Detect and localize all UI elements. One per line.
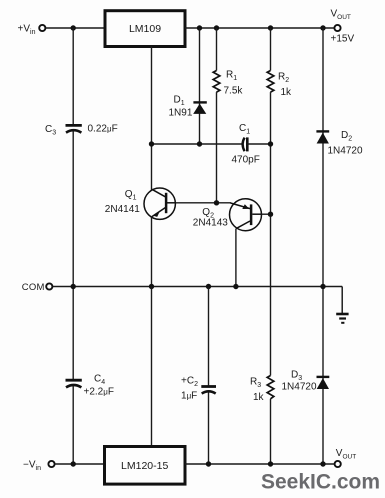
svg-text:1μF: 1μF [181,390,197,401]
junction C1 wire at R2 rail [268,141,273,146]
junction COM at Q1 emitter rail [149,284,154,289]
wire LM109 bottom to Q1 collector [151,47,153,191]
wire C2 rail bottom [208,392,210,464]
wire Q1 emitter down [151,218,153,287]
wire D2 D3 rail [322,28,324,464]
diode D2 [316,130,329,143]
ground [336,287,348,323]
wire left rail (upper segment) [72,28,74,125]
capacitor C1 [243,137,248,151]
svg-text:0.22μF: 0.22μF [88,124,118,135]
wire R1 rail bottom [216,92,218,203]
junction bottom at left rail [71,461,76,466]
terminal -Vin [48,461,54,467]
wire R3 rail bottom [270,399,272,464]
svg-text:COM: COM [22,282,45,293]
wire R2 rail top [270,28,272,71]
svg-text:SeekIC.com: SeekIC.com [261,471,380,494]
wire LM109 to Vout top [185,27,334,29]
svg-text:470pF: 470pF [232,155,260,166]
wire C2 rail top [208,287,210,387]
wire Q2 base to R2 rail [262,213,271,215]
terminal Vout bottom [335,461,341,467]
junction bottom at C2 rail [206,461,211,466]
regulator U2 LM120-15 [105,447,186,485]
junction C1 wire at D1 rail [197,141,202,146]
svg-text:+15V: +15V [331,34,355,45]
wire C1 left [152,143,243,145]
wire Q1 emitter rail to LM120 [151,287,153,447]
wire Q1 base to Q2 emitter [176,202,231,204]
junction COM at C2 rail [206,284,211,289]
junction bottom at D3 rail [320,461,325,466]
junction D2 rail top [320,25,325,30]
wire R2 rail middle [270,92,272,375]
wire R1 rail top [216,28,218,71]
junction C1 wire at LM109 rail [149,141,154,146]
transistor Q2 [230,199,262,231]
svg-text:LM120-15: LM120-15 [121,460,168,472]
junction left rail top [71,25,76,30]
svg-text:1k: 1k [281,87,293,98]
terminal COM [46,283,52,289]
svg-text:LM109: LM109 [129,23,161,35]
resistor R3 [267,376,274,399]
svg-text:+2.2μF: +2.2μF [84,387,114,398]
resistor R1 [213,71,220,93]
junction COM at D2 rail [320,284,325,289]
wire COM rail [53,286,342,288]
junction R1 rail at base wire [214,200,219,205]
svg-text:1N4720: 1N4720 [282,381,317,392]
svg-text:1N91: 1N91 [169,108,193,119]
svg-text:1N4720: 1N4720 [328,146,363,157]
capacitor C4 [66,380,82,387]
wire C1 right [247,143,270,145]
junction R1 rail top [214,25,219,30]
svg-text:1k: 1k [253,392,265,403]
terminal +Vin [39,25,45,31]
regulator U1 LM109 [105,11,185,47]
junction R2 rail top [268,25,273,30]
svg-text:2N4143: 2N4143 [193,218,228,229]
diode D1 [193,101,207,114]
capacitor C3 [66,125,82,132]
wire left rail (lower segment) [72,386,74,464]
transistor Q1 [144,188,176,219]
terminal Vout top [334,25,340,31]
junction Q2 base at R2 rail [268,212,273,217]
junction D1 rail top [197,25,202,30]
capacitor C2 [201,387,216,394]
diode D3 [317,376,330,389]
resistor R2 [267,71,274,93]
junction COM at left rail [71,284,76,289]
svg-text:7.5k: 7.5k [224,86,244,97]
wire LM120 to Vout bottom [185,463,334,465]
wire left rail (middle segment) [72,131,74,380]
junction bottom at R3 rail [268,461,273,466]
wire D1 rail [199,28,201,144]
junction COM at Q2 collector [233,284,238,289]
wire +Vin to LM109 [46,27,105,29]
wire -Vin to LM120 [55,463,105,465]
svg-text:2N4141: 2N4141 [105,204,140,215]
wire Q2 collector to COM [235,229,237,287]
